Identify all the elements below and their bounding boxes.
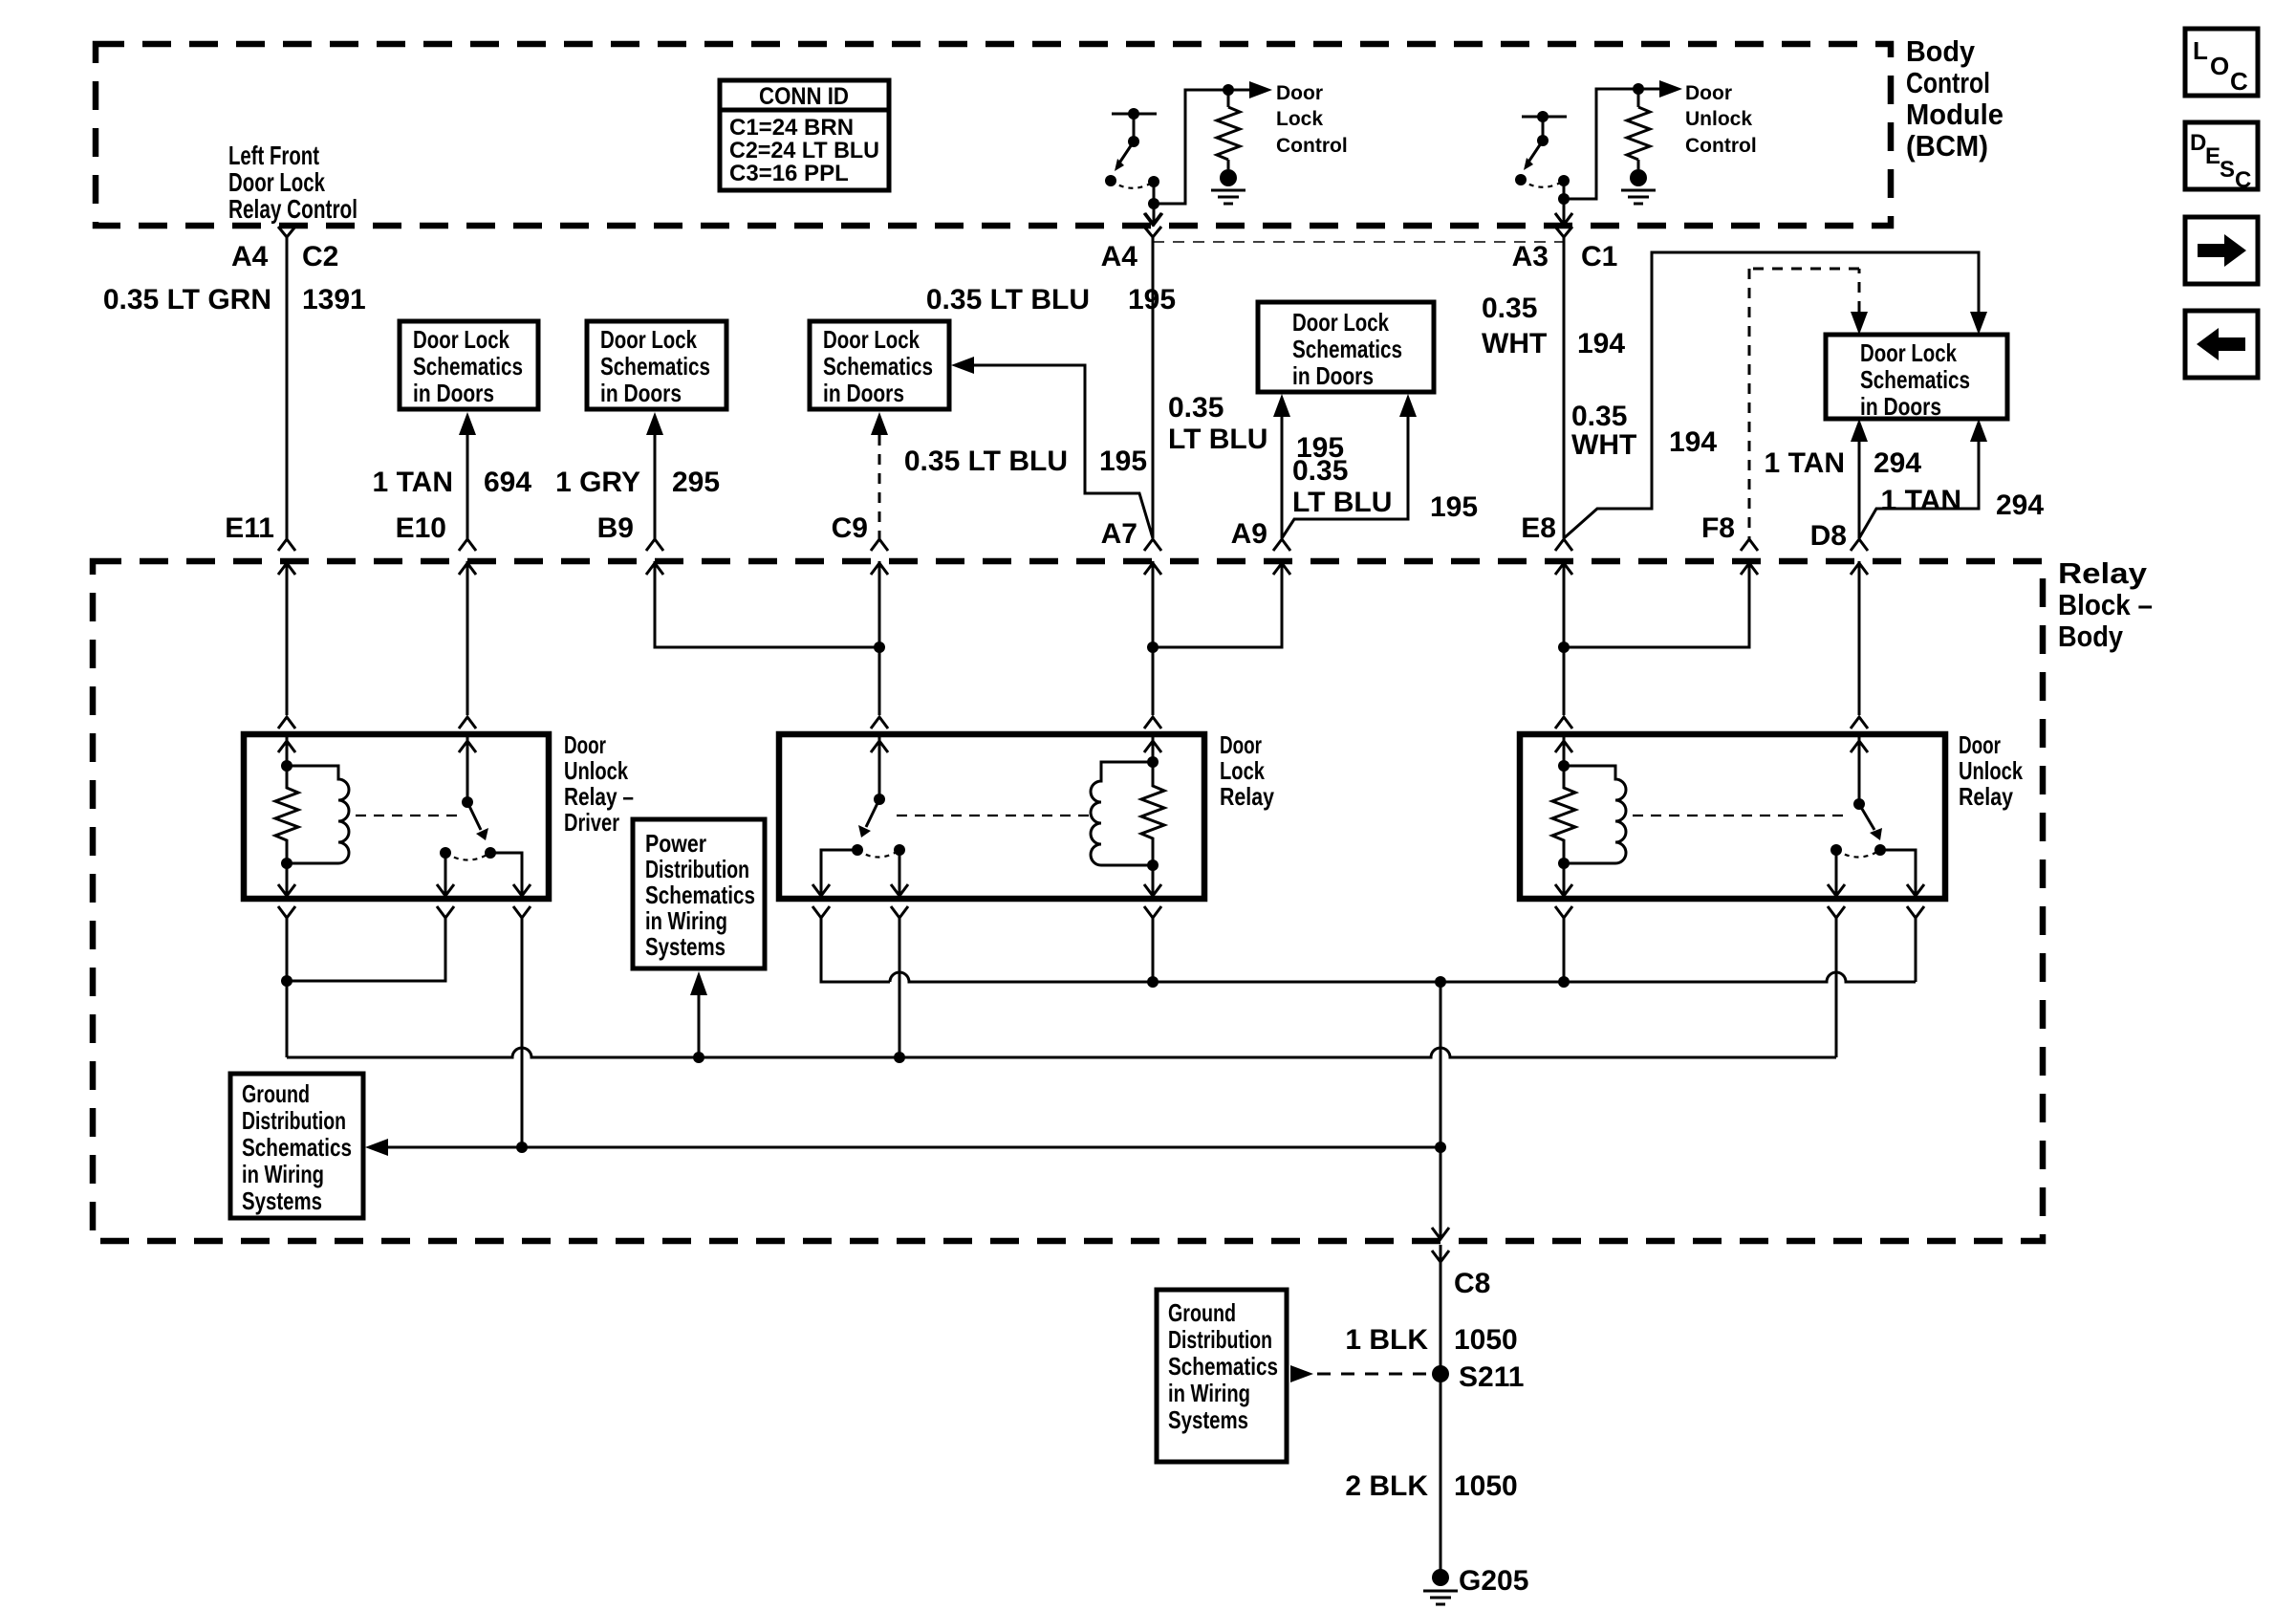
relay 1 coil bottom node bbox=[281, 858, 292, 869]
relay 2 Door Lock Relay box bbox=[779, 734, 1204, 899]
wire arrow to Door Lock Control bbox=[1228, 81, 1272, 98]
svg-text:294: 294 bbox=[1874, 447, 1921, 479]
svg-text:Distribution: Distribution bbox=[242, 1106, 346, 1135]
ground distribution box upper bbox=[230, 1074, 363, 1218]
svg-text:0.35 LT BLU: 0.35 LT BLU bbox=[926, 284, 1090, 315]
relay 1 actuation dashed link bbox=[356, 815, 457, 816]
svg-text:Body: Body bbox=[1906, 34, 1976, 68]
svg-text:Systems: Systems bbox=[645, 932, 726, 961]
svg-text:Door Lock: Door Lock bbox=[823, 325, 920, 354]
wire E10 arrow into box 1 bbox=[459, 412, 476, 435]
svg-text:D8: D8 bbox=[1810, 520, 1847, 552]
svg-text:Control: Control bbox=[1276, 135, 1348, 157]
svg-text:Schematics: Schematics bbox=[645, 881, 755, 909]
box Door Lock Schematics in Doors 2 bbox=[587, 321, 726, 409]
svg-text:in Doors: in Doors bbox=[413, 379, 494, 407]
relay 3 coil bottom node bbox=[1558, 858, 1570, 869]
svg-text:B9: B9 bbox=[597, 512, 634, 544]
relay 2 label bbox=[1220, 730, 1274, 811]
node relay1 common on bus B bbox=[516, 1142, 528, 1153]
relay 2 coil bottom node bbox=[1147, 859, 1159, 871]
wire C9 dashed arrow into box 3 bbox=[871, 412, 888, 435]
wire A7 inside relay block bbox=[1152, 561, 1155, 715]
wire E11 inside relay block bbox=[286, 561, 289, 715]
svg-text:Door: Door bbox=[1220, 730, 1262, 759]
svg-text:C3=16 PPL: C3=16 PPL bbox=[729, 161, 849, 186]
svg-text:Driver: Driver bbox=[564, 808, 619, 837]
LOC icon bbox=[2185, 29, 2258, 96]
svg-text:0.35 LT GRN: 0.35 LT GRN bbox=[103, 284, 271, 315]
svg-text:Distribution: Distribution bbox=[1168, 1325, 1272, 1354]
svg-text:L: L bbox=[2193, 36, 2208, 65]
box Door Lock Schematics in Doors 5 (right) bbox=[1826, 335, 2007, 421]
svg-text:0.35: 0.35 bbox=[1571, 401, 1627, 432]
relay 3 coil pin bottom arrow bbox=[1555, 863, 1572, 896]
svg-text:Unlock: Unlock bbox=[1685, 108, 1752, 130]
power distribution box bbox=[633, 819, 765, 968]
wire unlock switch to resistor node bbox=[1564, 89, 1638, 199]
wire relay3 left contact leg to bus A end bbox=[1835, 918, 1838, 1057]
wire C9 inside relay block bbox=[878, 561, 881, 715]
svg-text:Door Lock: Door Lock bbox=[228, 167, 325, 197]
svg-text:Relay: Relay bbox=[2058, 556, 2148, 590]
svg-text:in Wiring: in Wiring bbox=[1168, 1379, 1250, 1407]
node ground drop on unlock line bbox=[1435, 976, 1446, 988]
svg-text:Door Lock: Door Lock bbox=[1292, 308, 1389, 337]
relay 3 actuation dashed link bbox=[1633, 815, 1851, 816]
Door Unlock Control label bbox=[1685, 82, 1757, 157]
connector C9 chevrons at relay block edge bbox=[871, 539, 888, 551]
relay 2 switch contacts bbox=[852, 844, 863, 856]
svg-text:E8: E8 bbox=[1521, 512, 1556, 544]
node S211 bbox=[1432, 1365, 1449, 1382]
wire second 195 arrow into box 4 bbox=[1282, 394, 1417, 538]
Relay Block dashed box bbox=[93, 561, 2043, 1241]
wire D8 inside relay block bbox=[1858, 561, 1861, 715]
relay 3 Door Unlock Relay box bbox=[1520, 734, 1945, 899]
svg-text:in Doors: in Doors bbox=[1860, 392, 1941, 421]
wire relay1 left contact elbow bbox=[287, 918, 445, 981]
svg-text:C9: C9 bbox=[832, 512, 868, 544]
connector A4 Y at BCM bbox=[1144, 227, 1161, 237]
wire ground drop bbox=[1440, 982, 1442, 1147]
wire dashed feeler to S211 bbox=[1290, 1365, 1313, 1382]
svg-text:Schematics: Schematics bbox=[242, 1133, 352, 1162]
svg-text:Door: Door bbox=[1276, 82, 1323, 104]
connector body thin dashed line bbox=[1153, 241, 1564, 243]
svg-text:Control: Control bbox=[1906, 66, 1990, 99]
connector E8 chevrons at relay block edge bbox=[1555, 539, 1572, 551]
svg-text:Door Lock: Door Lock bbox=[1860, 338, 1957, 367]
relay 3 left contact leg bbox=[1828, 850, 1845, 896]
svg-text:Power: Power bbox=[645, 829, 706, 858]
DESC icon bbox=[2185, 122, 2258, 193]
wire lock switch down arrow to BCM edge bbox=[1145, 204, 1162, 225]
CONN ID table bbox=[720, 80, 889, 190]
relay 2 switch pivot pin chevrons bbox=[871, 717, 888, 729]
relay 1 coil top node bbox=[281, 760, 292, 772]
relay 3 switch arm bbox=[1859, 804, 1874, 830]
svg-text:in Doors: in Doors bbox=[1292, 361, 1374, 390]
svg-text:S211: S211 bbox=[1459, 1361, 1524, 1393]
wire from box 3 right edge to A7 bbox=[951, 357, 1153, 538]
relay 2 coil top node bbox=[1147, 756, 1159, 768]
svg-text:294: 294 bbox=[1996, 490, 2044, 521]
connector A9 chevrons at relay block edge bbox=[1273, 539, 1290, 551]
svg-text:Lock: Lock bbox=[1276, 108, 1323, 130]
relay 3 switch pivot bbox=[1853, 798, 1865, 810]
relay 2 left contact leg bbox=[812, 850, 857, 896]
wire 194 riser from E8 to box 5 bbox=[1564, 252, 1979, 538]
box Door Lock Schematics in Doors 3 bbox=[810, 321, 949, 409]
Relay Block label bbox=[2058, 556, 2153, 653]
connector A3/C1 Y at BCM bbox=[1555, 227, 1572, 237]
svg-text:0.35: 0.35 bbox=[1292, 455, 1348, 487]
svg-text:E11: E11 bbox=[225, 512, 274, 544]
svg-text:Door: Door bbox=[1685, 82, 1732, 104]
wire A4 to A7 bbox=[1152, 237, 1155, 538]
svg-text:Schematics: Schematics bbox=[1292, 335, 1402, 363]
svg-text:CONN ID: CONN ID bbox=[759, 83, 849, 110]
node relay3 coil on unlock line bbox=[1558, 976, 1570, 988]
node door unlock control bbox=[1633, 83, 1644, 95]
wire C1 to E8 bbox=[1563, 237, 1566, 538]
svg-text:1 TAN: 1 TAN bbox=[373, 467, 453, 498]
ground G205 symbol bbox=[1423, 1569, 1458, 1604]
wire A4 arrow at BCM edge bbox=[1144, 213, 1161, 225]
relay 2 coil bbox=[1091, 762, 1153, 865]
relay 1 coil pin chevrons bbox=[278, 717, 295, 729]
relay 3 coil pin chevrons bbox=[1555, 717, 1572, 729]
wire relay2 left contact to unlock line bbox=[821, 918, 890, 982]
box Door Lock Schematics in Doors 1 bbox=[400, 321, 538, 409]
connector C8 chevron below relay block bbox=[1432, 1251, 1449, 1262]
svg-text:1 BLK: 1 BLK bbox=[1345, 1324, 1428, 1356]
relay 1 switch arm bbox=[467, 802, 481, 830]
svg-text:WHT: WHT bbox=[1571, 429, 1636, 461]
relay 2 switch pivot bbox=[874, 794, 885, 805]
svg-text:Door: Door bbox=[564, 730, 606, 759]
node relay2 common on bus A bbox=[894, 1052, 905, 1063]
node power arrow on bus A bbox=[693, 1052, 704, 1063]
wire A9 elbow to A7 junction bbox=[1153, 561, 1282, 647]
wire relay3 common leg to unlock line bbox=[1915, 918, 1917, 982]
relay 2 actuation dashed link bbox=[897, 815, 1090, 816]
relay 1 coil pin bottom arrow bbox=[278, 863, 295, 896]
BCM label bbox=[1906, 34, 2004, 163]
svg-text:195: 195 bbox=[1128, 284, 1176, 315]
svg-text:Lock: Lock bbox=[1220, 756, 1265, 785]
connector E11 chevrons at relay block edge bbox=[278, 539, 295, 551]
wire C8 to S211 bbox=[1440, 1245, 1442, 1374]
bus B ground line with arrow into ground box bbox=[365, 1139, 388, 1156]
relay 3 coil bbox=[1564, 766, 1626, 863]
svg-text:Relay Control: Relay Control bbox=[228, 194, 357, 224]
svg-text:Unlock: Unlock bbox=[564, 756, 628, 785]
svg-text:Ground: Ground bbox=[242, 1079, 310, 1108]
relay 2 coil pin chevrons bbox=[1144, 717, 1161, 729]
connector B9 chevrons at relay block edge bbox=[646, 539, 663, 551]
connector A4/C2 Y at BCM bbox=[278, 227, 295, 237]
svg-text:in Wiring: in Wiring bbox=[645, 906, 727, 935]
connector D8 chevrons at relay block edge bbox=[1851, 539, 1868, 551]
svg-text:1 GRY: 1 GRY bbox=[555, 467, 640, 498]
relay 2 common leg bbox=[891, 850, 908, 896]
svg-text:0.35: 0.35 bbox=[1168, 392, 1224, 424]
svg-text:C: C bbox=[2235, 167, 2251, 193]
svg-text:0.35: 0.35 bbox=[1482, 293, 1537, 324]
wire lock switch to resistor node bbox=[1154, 90, 1228, 204]
node A9/A7 junction bbox=[1147, 642, 1159, 653]
svg-text:1 TAN: 1 TAN bbox=[1765, 447, 1845, 479]
wire ground drop to relay block edge arrow bbox=[1432, 1147, 1449, 1239]
node relay2 coil on unlock line bbox=[1147, 976, 1159, 988]
BCM dashed box bbox=[96, 44, 1891, 226]
svg-text:1 TAN: 1 TAN bbox=[1881, 485, 1961, 516]
svg-text:F8: F8 bbox=[1701, 512, 1735, 544]
resistor door lock control bbox=[1217, 90, 1240, 169]
relay 3 resistor bbox=[1552, 766, 1575, 863]
wire B9 elbow to C9 junction bbox=[655, 561, 879, 647]
svg-text:A4: A4 bbox=[1101, 241, 1138, 272]
svg-text:C2: C2 bbox=[302, 241, 338, 272]
svg-text:Module: Module bbox=[1906, 98, 2004, 131]
node relay1 elbow junction bbox=[281, 975, 292, 987]
node door lock control bbox=[1223, 84, 1234, 96]
wire relay2 common leg to bus A bbox=[899, 918, 901, 1057]
wire A3 arrow at BCM edge bbox=[1555, 213, 1572, 225]
wire B9 arrow into box 2 bbox=[646, 412, 663, 435]
relay 2 coil pin bottom arrow bbox=[1144, 865, 1161, 896]
svg-text:2 BLK: 2 BLK bbox=[1345, 1470, 1428, 1502]
relay 1 label bbox=[564, 730, 634, 837]
relay 2 switch arm bbox=[866, 799, 879, 827]
relay 1 switch contacts bbox=[440, 847, 451, 859]
relay 3 common leg bbox=[1880, 850, 1924, 896]
svg-text:A4: A4 bbox=[231, 241, 269, 272]
svg-text:WHT: WHT bbox=[1482, 328, 1547, 359]
wire unlock switch down arrow to BCM edge bbox=[1555, 199, 1572, 225]
svg-text:A9: A9 bbox=[1231, 518, 1267, 550]
svg-text:194: 194 bbox=[1669, 426, 1717, 458]
unlock line across relay block bbox=[890, 972, 1916, 982]
wire A9 arrow into box 4 bbox=[1273, 394, 1290, 417]
wire F8 elbow to E8 junction bbox=[1564, 561, 1749, 647]
connector E10 chevrons at relay block edge bbox=[459, 539, 476, 551]
connector A7 chevrons at relay block edge bbox=[1144, 539, 1161, 551]
svg-text:C1=24 BRN: C1=24 BRN bbox=[729, 115, 854, 141]
Left Front Door Lock Relay Control label bbox=[228, 141, 357, 224]
resistor door unlock control bbox=[1627, 89, 1650, 169]
svg-text:1050: 1050 bbox=[1454, 1324, 1518, 1356]
svg-text:Schematics: Schematics bbox=[1168, 1352, 1278, 1381]
relay 1 resistor bbox=[275, 766, 298, 863]
svg-text:LT BLU: LT BLU bbox=[1292, 487, 1392, 518]
svg-text:Schematics: Schematics bbox=[823, 352, 933, 381]
svg-text:Systems: Systems bbox=[242, 1186, 322, 1215]
relay 1 left contact leg bbox=[437, 853, 454, 896]
wire relay3 coil leg to unlock line bbox=[1563, 918, 1566, 982]
svg-text:Schematics: Schematics bbox=[600, 352, 710, 381]
svg-text:Relay –: Relay – bbox=[564, 782, 634, 811]
wire 1 TAN 294 second arrow into box 5 bbox=[1859, 419, 1987, 538]
relay 3 switch pivot pin chevrons bbox=[1851, 717, 1868, 729]
svg-text:in Doors: in Doors bbox=[823, 379, 904, 407]
svg-text:E: E bbox=[2205, 143, 2220, 169]
wire F8 dashed branch to box 5 bbox=[1749, 269, 1868, 539]
svg-text:in Wiring: in Wiring bbox=[242, 1160, 324, 1188]
svg-text:C1: C1 bbox=[1581, 241, 1617, 272]
wire E10 inside relay block bbox=[466, 561, 469, 715]
svg-text:D: D bbox=[2190, 130, 2206, 156]
svg-text:694: 694 bbox=[484, 467, 531, 498]
wire 1 TAN 294 first arrow into box 5 bbox=[1851, 419, 1868, 442]
svg-text:Left Front: Left Front bbox=[228, 141, 319, 170]
svg-text:Systems: Systems bbox=[1168, 1405, 1248, 1434]
svg-text:1050: 1050 bbox=[1454, 1470, 1518, 1502]
Door Lock Control label bbox=[1276, 82, 1348, 157]
svg-text:S: S bbox=[2220, 157, 2235, 183]
box Door Lock Schematics in Doors 4 (middle) bbox=[1258, 302, 1434, 392]
svg-text:Schematics: Schematics bbox=[1860, 365, 1970, 394]
relay 3 switch contacts bbox=[1830, 844, 1842, 856]
wire arrow to Door Unlock Control bbox=[1638, 80, 1682, 98]
relay 1 Door Unlock Relay Driver box bbox=[244, 734, 549, 899]
relay 1 common leg bbox=[490, 853, 531, 896]
svg-text:C2=24 LT BLU: C2=24 LT BLU bbox=[729, 138, 879, 163]
svg-text:195: 195 bbox=[1099, 446, 1147, 477]
relay 1 switch pivot bbox=[462, 796, 473, 808]
svg-text:Door Lock: Door Lock bbox=[413, 325, 509, 354]
wire relay2 coil leg to unlock line bbox=[1152, 918, 1155, 982]
wire S211 to G205 bbox=[1440, 1374, 1442, 1572]
svg-text:Relay: Relay bbox=[1959, 782, 2013, 811]
wire relay1 coil leg to bus A bbox=[286, 918, 289, 1057]
ground distribution box lower bbox=[1157, 1290, 1287, 1462]
svg-text:Distribution: Distribution bbox=[645, 855, 749, 883]
svg-text:Relay: Relay bbox=[1220, 782, 1274, 811]
svg-text:O: O bbox=[2210, 52, 2229, 80]
svg-text:195: 195 bbox=[1430, 491, 1478, 523]
svg-text:Body: Body bbox=[2058, 620, 2124, 653]
svg-text:295: 295 bbox=[672, 467, 720, 498]
svg-text:C8: C8 bbox=[1454, 1268, 1490, 1299]
wire E11 from BCM to relay block bbox=[286, 237, 289, 539]
ground door lock control bbox=[1211, 169, 1245, 204]
svg-text:A3: A3 bbox=[1512, 241, 1549, 272]
right arrow icon bbox=[2185, 217, 2258, 284]
svg-text:194: 194 bbox=[1577, 328, 1625, 359]
svg-text:A7: A7 bbox=[1101, 518, 1137, 550]
door unlock control switch bbox=[1515, 111, 1570, 205]
wire relay1 common to bus B bbox=[521, 918, 524, 1147]
svg-text:Control: Control bbox=[1685, 135, 1757, 157]
node B9/C9 junction bbox=[874, 642, 885, 653]
svg-text:E10: E10 bbox=[396, 512, 446, 544]
svg-text:Block –: Block – bbox=[2058, 588, 2153, 621]
svg-text:C: C bbox=[2230, 67, 2248, 96]
bus A power feed line bbox=[287, 1048, 1836, 1057]
relay 1 coil bbox=[287, 766, 349, 863]
wire power arrow from bus A bbox=[698, 994, 701, 1057]
ground door unlock control bbox=[1621, 169, 1656, 204]
svg-text:Schematics: Schematics bbox=[413, 352, 523, 381]
node F8/E8 junction bbox=[1558, 642, 1570, 653]
svg-text:1391: 1391 bbox=[302, 284, 366, 315]
relay 3 coil top node bbox=[1558, 760, 1570, 772]
svg-text:Unlock: Unlock bbox=[1959, 756, 2023, 785]
svg-text:LT BLU: LT BLU bbox=[1168, 424, 1267, 455]
svg-text:Door Lock: Door Lock bbox=[600, 325, 697, 354]
wire E8 inside relay block bbox=[1563, 561, 1566, 715]
connector F8 chevrons at relay block edge bbox=[1741, 539, 1758, 551]
left arrow icon bbox=[2185, 311, 2258, 378]
svg-text:Ground: Ground bbox=[1168, 1298, 1236, 1327]
svg-text:(BCM): (BCM) bbox=[1906, 129, 1988, 163]
svg-text:0.35 LT BLU: 0.35 LT BLU bbox=[904, 446, 1068, 477]
relay 3 label bbox=[1959, 730, 2023, 811]
svg-text:Door: Door bbox=[1959, 730, 2001, 759]
relay 2 resistor bbox=[1141, 762, 1164, 865]
door lock control switch bbox=[1105, 108, 1159, 209]
svg-text:G205: G205 bbox=[1459, 1565, 1528, 1597]
svg-text:in Doors: in Doors bbox=[600, 379, 682, 407]
node ground drop on bus B bbox=[1435, 1142, 1446, 1153]
